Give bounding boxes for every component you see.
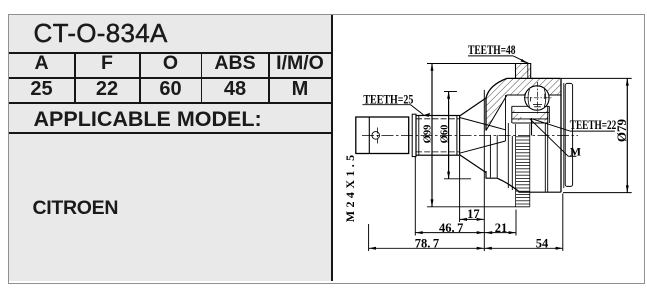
svg-text:M24X1.5: M24X1.5 xyxy=(343,151,357,222)
svg-text:78. 7: 78. 7 xyxy=(415,236,439,250)
svg-text:TEETH=25: TEETH=25 xyxy=(363,91,413,106)
svg-text:TEETH=22: TEETH=22 xyxy=(570,117,617,132)
svg-text:46. 7: 46. 7 xyxy=(439,221,463,235)
svg-text:M: M xyxy=(570,145,581,159)
svg-text:54: 54 xyxy=(536,236,549,250)
svg-text:21: 21 xyxy=(495,221,508,235)
svg-text:Ø60: Ø60 xyxy=(439,125,450,144)
svg-text:TEETH=48: TEETH=48 xyxy=(468,42,516,57)
svg-text:17: 17 xyxy=(467,207,480,221)
svg-text:Ø99: Ø99 xyxy=(422,125,433,144)
svg-text:Ø79: Ø79 xyxy=(614,118,629,142)
